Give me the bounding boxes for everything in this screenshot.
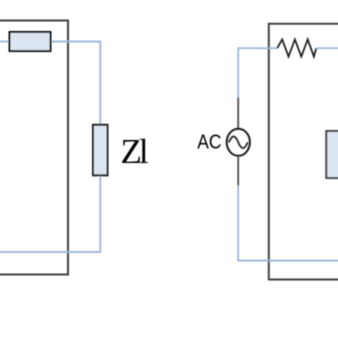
svg-text:AC: AC	[197, 131, 221, 154]
wire (top feed into source box from left edge)	[0, 41, 9, 43]
AC source circle	[227, 129, 250, 156]
AC source top lead (dark)	[237, 98, 239, 130]
left circuit outer loop (partial rectangle, cut off at left edge)	[0, 21, 68, 275]
right circuit outer loop (partial rectangle, cut off at right edge)	[269, 24, 338, 280]
svg-text:Zl: Zl	[121, 132, 149, 171]
wire from Zl bottom down and left to edge	[0, 176, 100, 252]
resistor R zigzag	[277, 39, 316, 56]
AC source bottom lead (dark)	[237, 156, 239, 186]
sine wave inside AC source	[229, 137, 248, 149]
wire from AC source bottom down and right along bottom (blue)	[238, 186, 338, 261]
wire from source box right to corner and down to Zl top	[52, 42, 101, 125]
impedance Zl box	[93, 125, 108, 176]
source box (series element, top left)	[10, 32, 51, 51]
wire from AC source top up and right to resistor (blue)	[238, 48, 277, 97]
wire from resistor right to right edge (blue)	[316, 47, 338, 49]
load box (partial, cut off at right edge)	[326, 131, 338, 178]
